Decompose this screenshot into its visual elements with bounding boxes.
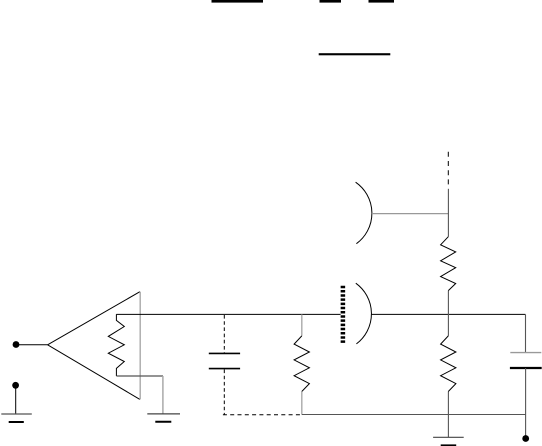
channel arc (lower MOS symbol) (356, 283, 372, 344)
resistor R2 zigzag (294, 336, 309, 392)
wire main node: R1 top to gate bar (116, 313, 340, 315)
wire R1 bottom lead to ground (116, 375, 163, 377)
channel arc (upper symbol) (356, 182, 372, 244)
gate bar (dashed plate of MOS symbol) (341, 286, 346, 343)
wire R4 bottom to ground (447, 392, 449, 438)
capacitor C2 top plate (gray) (510, 352, 541, 354)
wire C2 bottom down to output dot (525, 368, 527, 439)
capacitor C1 bottom plate (209, 368, 240, 370)
cropped text fragment bar 2 (top middle) (320, 0, 342, 3)
ground G1 short bar (9, 421, 24, 423)
wire R1 ground lead vertical (162, 376, 164, 414)
dashed wire bottom: C1 to R2 node (223, 414, 302, 416)
wire upper arc to vertical branch (372, 213, 448, 215)
output terminal dot (522, 435, 529, 442)
ground G1 long bar (1, 413, 32, 415)
resistor R2 bottom lead (301, 392, 303, 415)
capacitor C2 bottom plate (510, 367, 542, 369)
wire lower arc to main node (372, 313, 526, 315)
op-amp U1 base edge (139, 292, 141, 400)
capacitor C1 top plate (209, 352, 240, 354)
resistor R3 zigzag (441, 237, 456, 291)
wire R3 bottom to main node (447, 291, 449, 336)
resistor R4 zigzag (441, 336, 456, 392)
cropped text fragment bar 1 (top left) (212, 0, 264, 3)
capacitor C1 dashed bottom lead (223, 370, 225, 415)
cropped text fragment bar 3 (top right) (369, 0, 395, 3)
wire right branch down to C2 (525, 314, 527, 352)
op-amp U1 triangle (48, 292, 140, 400)
ground G2 long bar (147, 413, 180, 415)
fraction bar of cropped formula (319, 53, 391, 55)
resistor R2 top lead (301, 314, 303, 336)
ground G3 short bar (441, 444, 457, 446)
wire input terminal to op-amp apex (16, 344, 48, 346)
wire ground terminal down (15, 385, 17, 414)
capacitor C1 dashed top lead (223, 315, 225, 353)
ground terminal dot (12, 382, 19, 389)
resistor R1 (op-amp output resistance, inside triangle) (108, 314, 124, 376)
wire bottom: R2 node to right branch (302, 414, 526, 416)
ground G3 long bar (433, 436, 464, 438)
dashed wire top of vertical branch (447, 152, 449, 185)
ground G2 short bar (155, 421, 171, 423)
wire vertical branch upper (447, 189, 449, 237)
input terminal dot (node vi) (13, 341, 20, 348)
